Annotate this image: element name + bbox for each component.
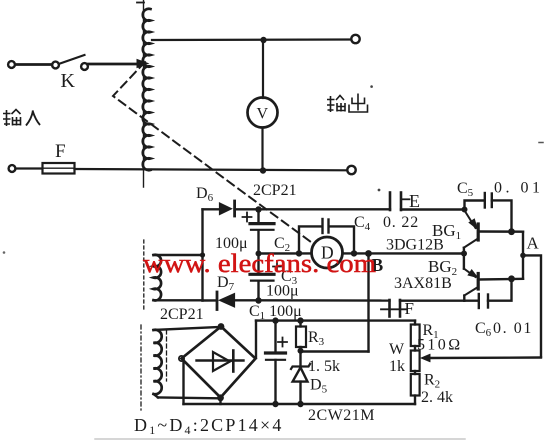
C3 plus sign [273,263,281,271]
svg-text:2CW21M: 2CW21M [308,407,375,424]
svg-text:1k: 1k [389,358,405,375]
svg-text:3DG12B: 3DG12B [386,237,444,254]
capacitor F (coupling) [388,300,391,317]
wire input to switch [16,63,53,66]
zener diode D5 2CW21M [291,364,310,369]
junction BG1 base [462,207,468,213]
diode D6 2CP21 [220,203,232,215]
capacitor C2 plates [250,222,274,225]
junction C1 bottom [272,401,278,407]
transistor BG1 collector node [465,201,485,210]
wiper arrow [421,354,431,362]
input terminal bottom [9,165,16,172]
fuse F [43,163,75,174]
node A tap [520,253,526,259]
svg-text:R3: R3 [308,329,325,348]
wire BG2 to right bus [480,278,524,281]
wire B to zener reference [301,350,369,352]
bridge rectifier D1-D4 diamond [182,327,256,398]
svg-text:K: K [61,70,76,92]
transformer core line [143,0,145,187]
bridge left corner circle [179,356,184,361]
svg-text:0. 22: 0. 22 [383,214,419,231]
svg-text:R2: R2 [424,372,440,391]
junction C1 top [272,317,278,323]
wire A right [523,255,541,356]
node B junction [365,250,372,257]
capacitor C1 top lead [274,321,276,352]
positive DC rail [256,319,415,321]
left bus wire [201,210,203,301]
svg-text:2CP21: 2CP21 [160,306,204,323]
capacitor C6 plates [478,294,480,308]
potentiometer W [411,351,420,372]
svg-text:E: E [409,191,420,211]
speck [370,85,373,88]
junction C6/BG2 [508,275,515,282]
wire bus to D6 [203,208,220,210]
svg-text:D1~D4:2CP14×4: D1~D4:2CP14×4 [134,415,284,437]
junction bridge top [218,323,225,330]
wire E cap to BG1 [401,208,465,210]
capacitor C6 leads [464,300,479,302]
wire fuse to output bottom rail [75,169,348,170]
svg-text:D6: D6 [196,185,214,204]
svg-text:2. 4k: 2. 4k [421,389,453,406]
svg-text:C1 100μ: C1 100μ [249,303,302,322]
output terminal top [351,35,359,43]
wire BG1 to right bus [480,230,524,233]
junction BG2 base [461,251,467,257]
capacitor C4 left lead [299,226,322,253]
wire switch to variac tap [89,63,138,66]
wire D7 row to F capacitor [203,299,218,302]
svg-text:3AX81B: 3AX81B [394,275,452,292]
svg-text:D5: D5 [310,377,328,396]
faint scan line bottom [95,438,465,440]
capacitor C3 plates [250,273,274,276]
winding T2 inner dashed line [166,330,168,381]
wire D6 to E capacitor [235,208,390,210]
label output chinese [327,94,368,113]
C2 plus sign [243,213,252,222]
wire bridge bottom to rail [219,398,221,404]
junction D5 bottom [297,401,303,407]
right bus vertical [522,232,524,279]
winding T2 core dash-dot line [140,325,142,410]
capacitor E (coupling) [389,193,392,211]
resistor R3 [296,327,306,348]
C1 bottom lead [274,360,276,404]
junction C5/BG1 [508,228,515,235]
speck [3,251,6,254]
C1 plus sign [278,338,287,347]
junction bottom rail [260,167,266,173]
bridge inner diode wire [197,359,244,361]
svg-text:1. 5k: 1. 5k [308,358,340,375]
C3 bottom lead [257,281,259,301]
transistor BG2 [464,269,476,277]
junction R3/D5 [298,348,304,354]
junction motor left [296,250,302,256]
capacitor C4 plates [321,219,323,233]
winding T1 bottom lead [154,299,203,301]
svg-text:C6: C6 [475,320,492,339]
wire motor right to B [343,252,465,255]
voltmeter top lead [262,40,264,98]
wire bridge right corner up [255,321,257,358]
junction C2 top [255,206,261,212]
wire C2/C3 mid to motor [259,252,312,255]
switch K contact 2 [81,63,88,70]
svg-text:0. 01: 0. 01 [494,180,544,197]
svg-text:C4: C4 [354,214,371,233]
svg-text:V: V [257,106,269,123]
junction bridge bottom [217,394,224,401]
bridge inner diode bar [232,351,235,372]
svg-text:F: F [55,141,66,162]
node B vertical wire [367,254,369,352]
speck [378,189,381,192]
input terminal top [8,61,15,68]
capacitor C2 100u lead [257,210,259,223]
core top tick [137,2,144,4]
wire between transistors [463,248,465,269]
capacitor C1 plates [266,351,286,354]
wire A down to wiper [429,356,541,359]
wire to fuse [16,167,43,169]
resistor R2 [411,374,420,396]
bridge inner diode triangle [213,352,230,371]
winding T2 top lead [154,327,220,330]
junction C2/C3 mid [256,251,262,257]
motor D [312,237,343,268]
voltmeter V [248,98,278,128]
diode D7 2CP21 [216,292,219,310]
speck [539,142,543,144]
svg-text:A: A [527,234,540,253]
svg-text:F: F [405,299,414,318]
capacitor C5 right lead [492,200,512,231]
capacitor C4 right lead [329,226,354,253]
svg-text:C5: C5 [457,180,474,199]
wire top rail to output [152,38,351,41]
switch K contact 1 [52,62,59,69]
svg-text:2CP21: 2CP21 [253,182,297,199]
ground rail [184,403,416,405]
label input chinese [3,110,40,127]
svg-text:100μ: 100μ [266,283,299,300]
transistor BG1 [465,211,476,229]
secondary winding T2 [154,330,162,394]
wire bridge left corner down [182,361,184,405]
winding T1 core line [143,240,145,312]
winding T2 bottom lead [154,394,159,398]
wire F cap to BG2 emitter [400,300,464,302]
junction bus/T1 [200,252,205,257]
capacitor C3 top lead [257,254,259,274]
capacitor C5 plates [484,193,486,208]
svg-text:510Ω: 510Ω [417,337,463,354]
variac winding [143,9,151,171]
junction motor right [351,250,357,256]
BG2 emitter down lead [463,296,465,301]
voltmeter bottom lead [261,128,263,172]
svg-text:0. 01: 0. 01 [493,320,533,337]
secondary winding T1 [154,255,162,301]
svg-text:www. elecfans. com: www. elecfans. com [143,248,376,278]
mechanical linkage dashed line [113,62,311,242]
C2 bottom lead [257,231,259,254]
junction R3 top [297,317,303,323]
resistor R1 [411,325,420,347]
variac tap arrow [137,60,148,68]
switch K blade [60,55,85,64]
svg-text:W: W [389,341,405,358]
junction top rail [260,37,266,43]
junction C3 bottom [255,297,261,303]
winding T1 top lead [154,254,203,256]
output terminal bottom [347,166,355,174]
